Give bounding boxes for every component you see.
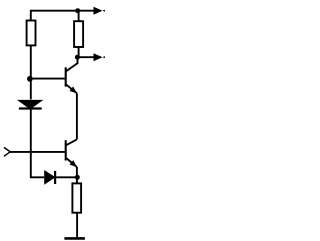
resistor R2 top stub: [78, 11, 80, 22]
resistor R3: [72, 183, 81, 212]
transistor Q1 base bar: [65, 67, 67, 86]
terminal output arrow top: [94, 7, 105, 15]
wire Vcc rail with R1 top stub: [31, 11, 97, 21]
wire D1 cathode down and across to D2: [31, 109, 44, 178]
node Vcc junction dot: [75, 8, 80, 13]
diode D1 cathode bar: [19, 107, 42, 109]
diode D2 triangle: [45, 171, 54, 183]
wire D2 cathode to bottom node: [55, 176, 75, 178]
node collector junction dot: [75, 55, 80, 60]
resistor R1: [27, 21, 36, 46]
diode D1 triangle: [19, 101, 41, 109]
transistor Q1 emitter arrow: [69, 87, 76, 94]
resistor R2: [74, 21, 83, 47]
terminal output arrow 2: [94, 53, 105, 61]
wire Q1 emitter to Q2 collector: [76, 93, 78, 139]
transistor Q2 emitter arrow: [70, 160, 77, 167]
terminal input chevron: [4, 147, 10, 156]
transistor Q2 emitter lead: [66, 158, 77, 167]
ground: [64, 237, 85, 240]
wire R1 bottom to D1 anode: [30, 45, 32, 99]
wire R2 bottom stub: [78, 47, 80, 57]
diode D2 cathode bar: [54, 171, 56, 184]
wire R3 bottom to ground: [76, 213, 78, 238]
transistor Q2 collector lead: [66, 139, 77, 145]
resistor R3 top stub: [76, 177, 78, 183]
transistor Q1 collector lead: [66, 57, 78, 71]
wire to output arrow 2: [77, 56, 95, 58]
transistor Q1 emitter lead: [66, 84, 77, 93]
transistor Q2 base bar: [65, 140, 67, 160]
node emitter junction dot: [75, 175, 80, 180]
wire input to Q2 base: [10, 151, 65, 153]
wire Q1 base: [31, 78, 65, 80]
node base node dot: [27, 76, 33, 82]
wire Q2 emitter to bottom node: [76, 167, 78, 177]
